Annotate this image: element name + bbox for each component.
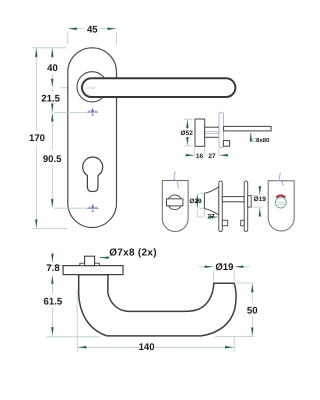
svg-text:170: 170 <box>29 133 45 144</box>
svg-text:□8x80: □8x80 <box>253 137 271 144</box>
svg-text:50: 50 <box>247 306 258 317</box>
svg-text:27: 27 <box>208 153 216 160</box>
svg-text:16: 16 <box>196 153 204 160</box>
svg-text:Ø52: Ø52 <box>181 130 194 137</box>
svg-text:140: 140 <box>139 342 155 353</box>
svg-text:40: 40 <box>47 63 58 74</box>
svg-text:21.5: 21.5 <box>41 94 60 105</box>
svg-text:61.5: 61.5 <box>44 297 63 308</box>
svg-text:Ø19: Ø19 <box>254 196 267 203</box>
svg-text:Ø19: Ø19 <box>215 262 233 273</box>
svg-text:Ø29: Ø29 <box>189 198 202 205</box>
svg-text:90.5: 90.5 <box>43 154 62 165</box>
svg-text:27: 27 <box>207 214 215 221</box>
svg-text:Ø7x8 (2x): Ø7x8 (2x) <box>109 248 157 259</box>
svg-text:7.8: 7.8 <box>46 263 60 274</box>
svg-text:45: 45 <box>87 25 98 36</box>
